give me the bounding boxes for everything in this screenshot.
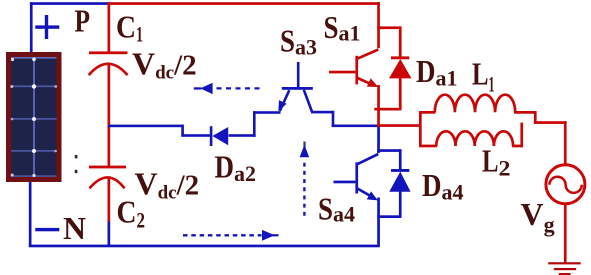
svg-text:L1: L1 bbox=[472, 56, 495, 97]
label Sa4 bbox=[318, 191, 355, 227]
svg-text:Vg: Vg bbox=[521, 196, 555, 237]
wire: grid source top lead bbox=[564, 121, 567, 166]
wire: L2 right stub bbox=[512, 145, 523, 148]
wire: panel positive lead (blue, vertical) bbox=[30, 2, 33, 52]
capacitor C1 bbox=[89, 51, 128, 75]
inductor L2 bbox=[436, 131, 513, 146]
wire: DC-link rail red vertical (C1 top section) bbox=[108, 2, 111, 52]
node N label bbox=[63, 210, 86, 246]
wire: Da1 top branch bbox=[377, 26, 401, 29]
wire: segment into Da2 anode-side bbox=[181, 134, 211, 137]
svg-text:C1: C1 bbox=[116, 9, 143, 47]
label Da1 bbox=[416, 53, 458, 91]
wire: step down after Sa3 bbox=[332, 111, 335, 127]
wire: riser from L2 up to output line bbox=[520, 123, 523, 148]
wire: bottom N bus bbox=[29, 245, 380, 248]
wire: Sa4 collector rail from midpoint node bbox=[377, 125, 380, 153]
dashed current arrow (vertical, pointing up) bbox=[300, 142, 310, 216]
svg-text:L2: L2 bbox=[482, 143, 511, 181]
diode Da1 bbox=[389, 26, 412, 109]
wire: Da4 top branch bbox=[377, 149, 401, 152]
wire: Sa4 emitter rail down to N bus bbox=[377, 198, 380, 248]
wire: L2 left stub bbox=[419, 145, 437, 148]
dashed current arrow (upper, pointing left) bbox=[194, 83, 264, 94]
diode Da4 bbox=[389, 149, 410, 218]
wire: top bus blue segment P to C1 rail bbox=[30, 2, 109, 5]
label Sa1 bbox=[324, 9, 361, 46]
wire: Sa3 to midpoint node (blue) bbox=[332, 125, 378, 128]
label Vdc/2 (lower) bbox=[135, 166, 200, 204]
PV panel frame bbox=[6, 52, 62, 182]
wire: step down before Da2 bbox=[181, 125, 184, 137]
wire: C2 bottom blue stub to N bus bbox=[108, 222, 111, 247]
wire: grid source bottom lead bbox=[564, 204, 567, 264]
wire: top bus red segment C1 rail to Sa1 collector bbox=[108, 2, 381, 5]
svg-text:Sa4: Sa4 bbox=[318, 191, 355, 227]
transistor Sa3 (IGBT, blue) bbox=[278, 62, 313, 112]
svg-text:Sa3: Sa3 bbox=[280, 23, 317, 60]
label Da4 bbox=[422, 167, 464, 205]
diode Da2 bbox=[210, 126, 228, 146]
label C1 bbox=[116, 9, 143, 47]
wire: L1 left stub bbox=[419, 111, 436, 114]
svg-text:Vdc/2: Vdc/2 bbox=[135, 166, 200, 204]
wire: midpoint node to filter (red) bbox=[377, 124, 421, 127]
svg-text:Da4: Da4 bbox=[422, 167, 464, 205]
tick marks right of panel bbox=[75, 155, 78, 173]
wire: Sa1 collector rail from top bus bbox=[377, 2, 380, 48]
wire: riser from L1 down to output line bbox=[534, 111, 537, 124]
node P label bbox=[75, 3, 91, 39]
svg-text:P: P bbox=[75, 3, 91, 39]
svg-text:Sa1: Sa1 bbox=[324, 9, 361, 46]
minus terminal symbol bbox=[35, 228, 59, 231]
svg-text:Da1: Da1 bbox=[416, 53, 458, 91]
plus terminal symbol bbox=[35, 15, 59, 39]
wire: Da1 bottom connector bbox=[374, 108, 401, 111]
wire: Da4 bottom connector bbox=[377, 215, 401, 218]
wire: DC-link rail red vertical (between C1 and C2) bbox=[108, 64, 111, 168]
wire: step up after Da2 bbox=[253, 111, 256, 137]
wire: collector lead of Sa3 bbox=[311, 111, 334, 114]
label Da2 bbox=[215, 149, 257, 187]
PV panel cell grid bbox=[10, 57, 57, 177]
svg-text:Vdc/2: Vdc/2 bbox=[132, 46, 197, 84]
wire: L1 right stub bbox=[514, 111, 537, 114]
AC source Vg bbox=[546, 165, 585, 204]
ground bbox=[548, 262, 581, 275]
dashed current arrow (bottom, pointing right) bbox=[183, 230, 279, 241]
inductor L1 bbox=[435, 95, 515, 113]
transistor Sa1 (IGBT, red) bbox=[329, 50, 378, 88]
svg-text:N: N bbox=[63, 210, 86, 246]
wire: Da2 to step-up bbox=[229, 134, 256, 137]
wire: panel negative lead (blue, vertical) bbox=[29, 182, 32, 247]
transistor Sa4 (IGBT, blue) bbox=[334, 154, 379, 200]
label Sa3 bbox=[280, 23, 317, 60]
capacitor C2 bbox=[89, 166, 126, 189]
svg-text:Da2: Da2 bbox=[215, 149, 257, 187]
wire: emitter lead of Sa3 bbox=[253, 111, 281, 114]
label Vg bbox=[521, 196, 555, 237]
wire: filter left bracket vertical bbox=[419, 111, 422, 147]
label L2 bbox=[482, 143, 511, 181]
label Vdc/2 (upper) bbox=[132, 46, 197, 84]
wire: C2 bottom red stub bbox=[108, 178, 111, 222]
wire: midpoint wire from DC-link to Da2 (blue) bbox=[108, 125, 184, 128]
label C2 bbox=[117, 194, 146, 233]
wire: output line to grid source bbox=[534, 121, 567, 124]
label L1 bbox=[472, 56, 495, 97]
wire: Sa1 emitter rail down to midpoint node bbox=[377, 85, 380, 127]
